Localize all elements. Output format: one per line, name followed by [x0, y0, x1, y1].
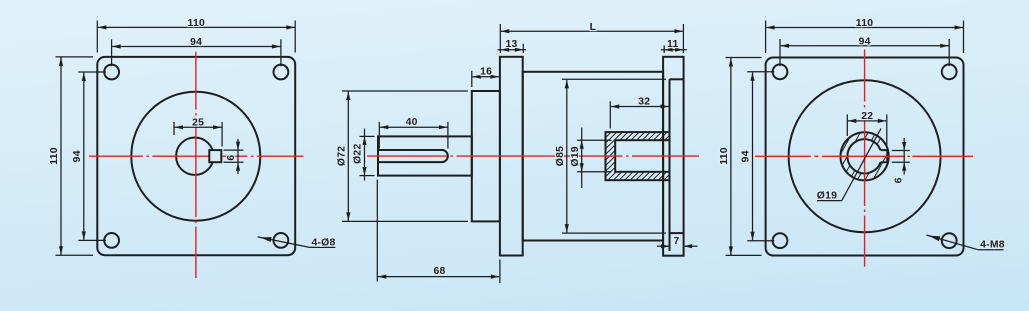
right view: dim 6 arrows	[902, 142, 906, 151]
left view: dim 6 line	[237, 139, 239, 174]
middle view: dim 40	[380, 126, 448, 128]
right view: leader 4-M8 arrow	[929, 236, 940, 241]
left view: dim 94 top	[112, 46, 280, 48]
right view: dim 94 top	[781, 45, 949, 47]
left view: dim 110 top	[98, 26, 295, 28]
left view: horizontal centerline	[89, 155, 304, 157]
middle view: dim 16 extension line	[471, 71, 473, 87]
middle view: shaft body	[378, 136, 472, 175]
svg-text:40: 40	[406, 117, 418, 128]
middle view: dim 32	[611, 106, 669, 108]
svg-text:6: 6	[893, 177, 904, 183]
middle view: rear spigot step	[669, 79, 671, 251]
middle view: dim 11	[661, 49, 687, 51]
right view: square flange plate outline	[766, 58, 964, 256]
svg-text:32: 32	[638, 96, 650, 107]
right view: vertical centerline	[864, 50, 866, 267]
middle view: dim 16	[472, 76, 499, 78]
right view: hub outer circle	[841, 132, 889, 180]
middle view: dim 7	[657, 245, 670, 247]
middle view: dim 13	[498, 49, 527, 51]
right view: shaft bore with keyway	[847, 139, 887, 173]
right view: bolt hole top-left	[773, 64, 788, 79]
left view: square flange plate outline	[97, 57, 295, 255]
middle view: dim diam22 arrows	[362, 136, 366, 145]
left view: dim 94 left extension lines	[78, 71, 106, 73]
left view: dim 110 left extension lines	[56, 56, 94, 58]
svg-text:22: 22	[861, 111, 873, 122]
svg-text:4-Ø8: 4-Ø8	[311, 237, 335, 248]
left view: dim 94 top extension lines	[111, 39, 113, 66]
right view: dim 94 left extension lines	[747, 71, 774, 73]
svg-text:13: 13	[505, 39, 517, 50]
middle view: shaft keyway slot	[378, 150, 448, 162]
middle view: dim diam22 line	[364, 129, 366, 181]
svg-text:Ø85: Ø85	[555, 146, 566, 166]
left view: leader 4-Ø8 line	[258, 237, 310, 248]
svg-text:94: 94	[859, 36, 871, 47]
svg-text:94: 94	[190, 37, 202, 48]
left view: shaft key	[209, 150, 221, 162]
svg-text:Ø19: Ø19	[817, 190, 837, 201]
left view: bolt hole bottom-left	[104, 233, 119, 248]
right view: dim 110 top	[766, 27, 963, 29]
left view: boss circle	[131, 92, 260, 221]
left view: dim 6 arrows	[236, 142, 240, 151]
middle view: boss cylinder	[472, 91, 500, 221]
svg-text:110: 110	[856, 18, 874, 29]
left view: bolt hole top-left	[104, 65, 119, 80]
svg-text:68: 68	[433, 266, 445, 277]
right view: hub ring hatching	[841, 133, 889, 181]
right view: bolt hole bottom-left	[773, 233, 788, 248]
middle view: dim 68 extension lines	[376, 180, 378, 282]
middle view: dim diam72	[347, 92, 349, 221]
right view: bolt hole bottom-right	[942, 233, 957, 248]
svg-text:94: 94	[72, 150, 83, 162]
right view: leader 4-M8 line	[926, 235, 978, 250]
middle view: dim 40 extension lines	[378, 122, 380, 149]
svg-text:Ø22: Ø22	[353, 144, 364, 164]
middle view: dim diam85 extension lines	[562, 78, 666, 80]
middle view: socket bore	[615, 140, 669, 172]
svg-text:Ø19: Ø19	[570, 146, 581, 166]
right view: bolt hole top-right	[942, 64, 957, 79]
middle view: dim diam19 extension lines	[577, 139, 612, 141]
right view: dim 94 left	[752, 72, 754, 240]
middle view: dim L	[501, 30, 683, 32]
middle view: dim L extension lines	[499, 24, 501, 53]
left view: dim 25	[175, 126, 222, 128]
right view: dim 110 left	[730, 58, 732, 255]
middle view: front flange plate	[500, 57, 523, 256]
middle view: rear flange plate	[663, 57, 684, 256]
svg-text:6: 6	[226, 155, 237, 161]
middle view: dim diam19 line	[581, 128, 583, 189]
right view: dim 94 top extension lines	[779, 39, 781, 66]
right view: dim 22	[848, 120, 887, 122]
svg-text:25: 25	[192, 118, 204, 129]
middle view: dim 68	[378, 276, 500, 278]
left view: bolt hole top-right	[274, 65, 289, 80]
svg-text:L: L	[590, 22, 597, 33]
left view: shaft circle	[176, 138, 213, 175]
middle view: centerline	[367, 155, 699, 157]
middle view: dim 32 extension line	[609, 101, 611, 128]
right view: dim 110 top extension lines	[765, 21, 767, 54]
svg-text:110: 110	[49, 147, 60, 165]
left view: bolt hole bottom-right	[274, 233, 289, 248]
right view: dim 110 left extension lines	[726, 57, 762, 59]
svg-text:11: 11	[667, 39, 678, 50]
middle view: dim diam85	[566, 80, 568, 233]
middle view: dim diam22 extension lines	[360, 135, 375, 137]
svg-text:110: 110	[188, 18, 206, 29]
left view: leader 4-Ø8 arrow	[260, 237, 271, 242]
middle view: gearbox body	[523, 72, 663, 241]
right view: label diam19 underline	[817, 200, 842, 202]
right view: dim 6 line	[903, 138, 905, 175]
middle view: socket outer section	[606, 132, 670, 180]
middle view: dim 11 extension line	[663, 45, 665, 53]
right view: label diam19 leader	[842, 129, 881, 201]
svg-text:Ø72: Ø72	[336, 146, 347, 166]
right view: horizontal centerline	[755, 155, 973, 157]
left view: dim 110 top extension lines	[96, 21, 98, 53]
left view: dim 94 left	[83, 73, 85, 240]
middle view: socket hatching	[606, 132, 670, 180]
right view: dim 22 extension lines	[846, 114, 848, 136]
middle view: dim 13 extension line	[522, 44, 524, 53]
svg-text:16: 16	[480, 67, 492, 78]
middle view: dim diam19 arrows	[580, 140, 584, 149]
svg-text:94: 94	[741, 150, 752, 162]
svg-text:110: 110	[719, 147, 730, 165]
right view: dim 6 extension lines	[892, 150, 910, 152]
middle view: dim diam72 extension lines	[342, 90, 468, 92]
left view: dim 6 extension lines	[224, 149, 244, 151]
left view: dim 110 left	[60, 57, 62, 254]
svg-text:7: 7	[674, 236, 680, 247]
left view: dim 25 extension lines	[173, 122, 175, 135]
svg-text:4-M8: 4-M8	[980, 240, 1005, 251]
right view: body circle	[789, 80, 941, 232]
left view: vertical centerline	[195, 52, 197, 278]
